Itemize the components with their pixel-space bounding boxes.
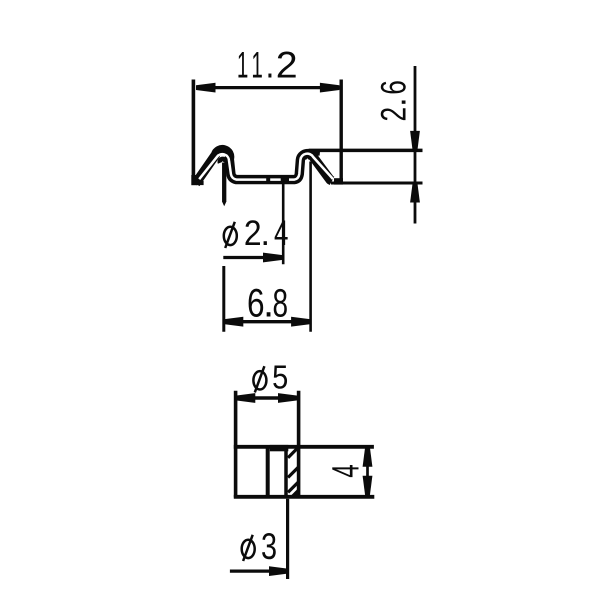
- bottom extension line: [331, 182, 423, 185]
- hatch lines of section: [288, 447, 299, 492]
- svg-text:1: 1: [251, 45, 262, 86]
- top extension line (tangent over right bump to right): [309, 149, 423, 153]
- corner fill bottom-left: [191, 175, 197, 185]
- arrow right dia5: [278, 393, 298, 403]
- bottom corner fill of hatch strip: [288, 488, 299, 499]
- thick band at top between bores: [270, 445, 289, 451]
- arrow right 6.8: [291, 317, 311, 327]
- svg-text:4: 4: [274, 213, 288, 253]
- right wall of clip: [340, 80, 343, 185]
- dim/leader line 2.4: [223, 256, 281, 259]
- arrow left 6.8: [224, 317, 244, 327]
- diameter symbol of 5: [253, 366, 266, 392]
- dim line 5: [236, 396, 298, 399]
- dim line 2.6 vertical: [414, 66, 417, 224]
- leader line dia3: [230, 569, 288, 572]
- svg-text:4: 4: [324, 464, 367, 477]
- svg-text:2: 2: [276, 44, 298, 86]
- arrow left of 11.2: [196, 83, 216, 93]
- svg-text:1: 1: [237, 45, 248, 86]
- svg-text:.: .: [260, 214, 270, 253]
- left wall of clip: [192, 80, 196, 186]
- arrow right to ext line: [263, 253, 283, 263]
- inner counterbore line: [284, 448, 288, 496]
- svg-text:.: .: [375, 97, 414, 107]
- left pin: [222, 163, 226, 202]
- arrow left dia5: [236, 393, 256, 403]
- diameter symbol of 3: [242, 535, 255, 561]
- black bridge where right bump meets diagonal: [313, 152, 320, 156]
- left extension line: [222, 266, 225, 332]
- bridge tick in channel (hole edge right): [281, 176, 289, 181]
- right pin / extension line for 6.8: [309, 162, 312, 332]
- svg-text:2: 2: [244, 214, 262, 253]
- svg-text:6: 6: [374, 80, 414, 95]
- bottom edge + ext to the right: [234, 495, 374, 499]
- dim line 4 vertical: [366, 447, 369, 495]
- svg-text:5: 5: [272, 359, 288, 396]
- diameter symbol of 2.4: [224, 222, 237, 248]
- inner bore line: [266, 447, 270, 497]
- arrow right of 11.2: [320, 83, 340, 93]
- left wall / extension: [234, 391, 238, 498]
- dim line 6.8: [224, 320, 311, 323]
- top edge + ext to the right: [234, 445, 374, 449]
- svg-text:8: 8: [273, 282, 289, 326]
- svg-text:2: 2: [374, 107, 414, 122]
- dim line 11.2: [196, 86, 339, 89]
- arrow down: [363, 476, 373, 496]
- bridge tick in channel (hole edge left): [266, 176, 270, 181]
- corner fill bottom-right: [334, 178, 343, 184]
- arrow down to top ext line: [410, 131, 420, 151]
- arrow right to stem: [269, 566, 289, 576]
- svg-text:3: 3: [261, 527, 277, 568]
- arrow up: [363, 447, 373, 467]
- arrow up to bottom ext line: [410, 183, 420, 203]
- svg-text:.: .: [265, 44, 274, 86]
- inner crescent of left dome: [220, 159, 226, 163]
- svg-text:6: 6: [247, 280, 265, 325]
- right wall / extension: [297, 391, 301, 498]
- corner fill bottom-left base: [196, 181, 204, 185]
- inner crescent of right dome: [305, 157, 310, 160]
- extension line from sheet bottom: [282, 183, 285, 264]
- sheet-metal profile: black midline stroke: [196, 150, 332, 184]
- white channel: full inner gap of sheet: [199, 154, 333, 180]
- stem line below part: [286, 499, 289, 579]
